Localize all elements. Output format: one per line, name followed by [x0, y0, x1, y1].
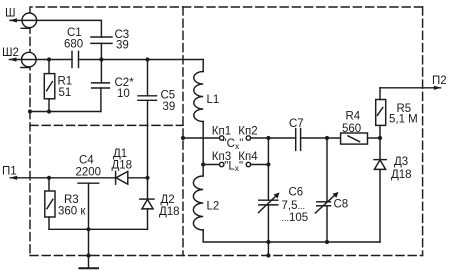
svg-text:39: 39	[116, 40, 129, 52]
resistor R4	[341, 133, 380, 144]
svg-text:Кп2: Кп2	[238, 125, 257, 137]
svg-text:5,1 М: 5,1 М	[389, 114, 418, 126]
node C6 top	[266, 136, 270, 140]
wire Lx line left	[203, 164, 219, 166]
svg-text:L1: L1	[207, 94, 220, 106]
svg-text:"Cх": "Cх"	[223, 138, 244, 151]
svg-text:...105: ...105	[282, 212, 309, 224]
inductor L2	[193, 176, 203, 230]
shield dashed left	[29, 13, 31, 256]
resistor R5	[376, 88, 386, 138]
node shield crossing	[86, 253, 90, 257]
svg-text:10: 10	[117, 88, 130, 100]
node Lx tap	[201, 162, 205, 166]
wire ground rail left	[49, 228, 148, 230]
capacitor C2	[92, 60, 110, 112]
svg-text:Д18: Д18	[159, 206, 180, 218]
node C8 top	[325, 136, 329, 140]
svg-text:"Lх": "Lх"	[224, 160, 243, 173]
wire P1 line	[10, 177, 147, 179]
capacitor C5	[138, 60, 157, 178]
svg-text:R4: R4	[346, 111, 361, 123]
capacitor C6 variable	[259, 138, 280, 242]
wire L1 to L2	[202, 122, 204, 177]
capacitor C8 variable	[315, 138, 338, 242]
svg-text:Ш2: Ш2	[2, 47, 19, 59]
node tank bottom right	[325, 240, 329, 244]
wire C3 bottom	[100, 43, 102, 59]
svg-text:C8: C8	[334, 199, 349, 211]
shield dashed bottom	[30, 255, 423, 257]
node C5 top	[145, 57, 149, 61]
shield dashed divider horizontal	[30, 124, 183, 126]
wire ground stem	[88, 229, 90, 268]
svg-text:39: 39	[163, 101, 176, 113]
capacitor C1	[72, 51, 79, 67]
node R1 bottom	[47, 109, 51, 113]
svg-text:Д18: Д18	[112, 160, 133, 172]
node ground tap	[86, 227, 90, 231]
shield dashed top	[30, 7, 423, 13]
diode D1	[116, 171, 128, 184]
svg-text:C5: C5	[161, 90, 176, 102]
svg-text:Д2: Д2	[161, 194, 175, 206]
node tank shield	[266, 253, 270, 257]
node C3/C2	[99, 57, 103, 61]
svg-text:Ш: Ш	[5, 8, 16, 20]
svg-text:680: 680	[64, 39, 83, 51]
svg-text:П1: П1	[2, 166, 17, 178]
wire Sh1 top line	[37, 20, 102, 37]
svg-text:C7: C7	[289, 118, 304, 130]
terminal Kp1	[220, 136, 224, 140]
diode D3	[374, 138, 386, 242]
wire Sh2 rail	[36, 59, 203, 61]
node tank bottom left	[266, 240, 270, 244]
wire Lx line right	[251, 164, 269, 166]
svg-text:R1: R1	[58, 76, 73, 88]
svg-text:C1: C1	[67, 27, 82, 39]
svg-text:Д1: Д1	[113, 148, 127, 160]
wire R1/C2 bottom link	[30, 111, 101, 113]
terminal Kp2	[246, 136, 250, 140]
node Cx left on shield	[181, 136, 185, 140]
svg-text:560: 560	[342, 123, 361, 135]
wire Cx line left	[183, 137, 220, 139]
capacitor C4	[78, 183, 99, 229]
svg-text:51: 51	[59, 87, 72, 99]
node link-shield	[28, 109, 32, 113]
svg-text:Кп1: Кп1	[212, 125, 231, 137]
terminal Kp3	[220, 162, 224, 166]
svg-text:Д3: Д3	[394, 156, 408, 168]
wire P2 line	[380, 87, 441, 89]
node R3 top	[47, 176, 51, 180]
resistor R1	[44, 60, 55, 112]
ground	[80, 267, 99, 269]
svg-text:L2: L2	[207, 201, 220, 213]
wire Cx line right	[251, 137, 296, 139]
svg-text:П2: П2	[432, 75, 447, 87]
node D2 top / C5 bottom	[145, 176, 149, 180]
capacitor C7	[296, 129, 341, 151]
svg-text:360 к: 360 к	[58, 206, 86, 218]
node C6 mid	[266, 162, 270, 166]
wire L2 bottom	[203, 230, 380, 242]
connector Sh1	[9, 13, 36, 28]
capacitor C3	[91, 37, 112, 43]
diode D2	[140, 178, 154, 230]
svg-text:R3: R3	[64, 194, 79, 206]
shield dashed divider vertical	[182, 7, 184, 256]
svg-text:C4: C4	[79, 155, 94, 167]
connector Sh2	[9, 52, 36, 67]
terminal Kp4	[246, 162, 250, 166]
shield dashed right	[422, 7, 424, 256]
wire rail to L1	[202, 60, 204, 72]
inductor L1	[194, 72, 203, 122]
arrow P2	[434, 86, 442, 90]
svg-text:7,5...: 7,5...	[282, 200, 306, 212]
node R1 top	[47, 57, 51, 61]
svg-text:2200: 2200	[76, 167, 102, 179]
node R4 right	[378, 136, 382, 140]
arrow P1	[10, 176, 18, 180]
svg-text:Д18: Д18	[391, 169, 412, 181]
resistor R3	[45, 178, 55, 230]
svg-text:C6: C6	[289, 187, 304, 199]
wire tank to shield	[267, 242, 269, 256]
